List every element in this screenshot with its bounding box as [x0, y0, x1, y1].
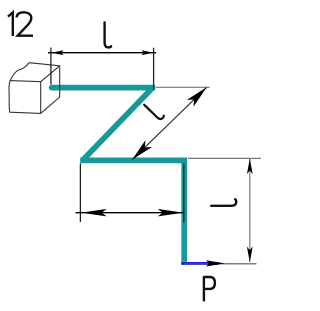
right dimension top arrowhead [247, 159, 253, 175]
bent rod (teal Z-shaped bar) [49, 85, 184, 262]
bottom dimension extension line left [79, 164, 81, 222]
bottom dimension right arrowhead [158, 209, 184, 217]
diagonal dimension line [132, 87, 207, 159]
diagonal dimension lower arrowhead [132, 140, 152, 159]
bottom dimension extension line right (over rod) [183, 163, 185, 222]
force P arrowhead [206, 260, 224, 266]
right dimension extension line top (grey) [188, 157, 261, 159]
diagonal dimension label l (rotated) [144, 101, 164, 121]
force P vector (blue) [181, 262, 219, 265]
right dimension bottom arrowhead [247, 247, 253, 263]
top dimension right arrowhead [142, 50, 154, 55]
force label P [204, 277, 215, 301]
right dimension label l (rotated) [211, 199, 236, 206]
figure number 12 [8, 12, 33, 36]
bottom dimension line [76, 212, 185, 214]
diagonal dimension extension line (grey, from upper rod corner) [156, 86, 210, 88]
bottom dimension left arrowhead [81, 209, 107, 217]
top dimension extension line right [153, 48, 155, 90]
support block (broken box) [9, 63, 60, 114]
diagonal dimension upper arrowhead [187, 87, 207, 106]
top dimension extension line left [50, 48, 52, 85]
top dimension left arrowhead [51, 50, 63, 55]
right dimension extension line bottom (grey, runs under force vector) [184, 263, 257, 265]
top dimension label l [105, 22, 112, 47]
top dimension line [48, 52, 156, 54]
right dimension line (grey vertical) [249, 158, 251, 262]
